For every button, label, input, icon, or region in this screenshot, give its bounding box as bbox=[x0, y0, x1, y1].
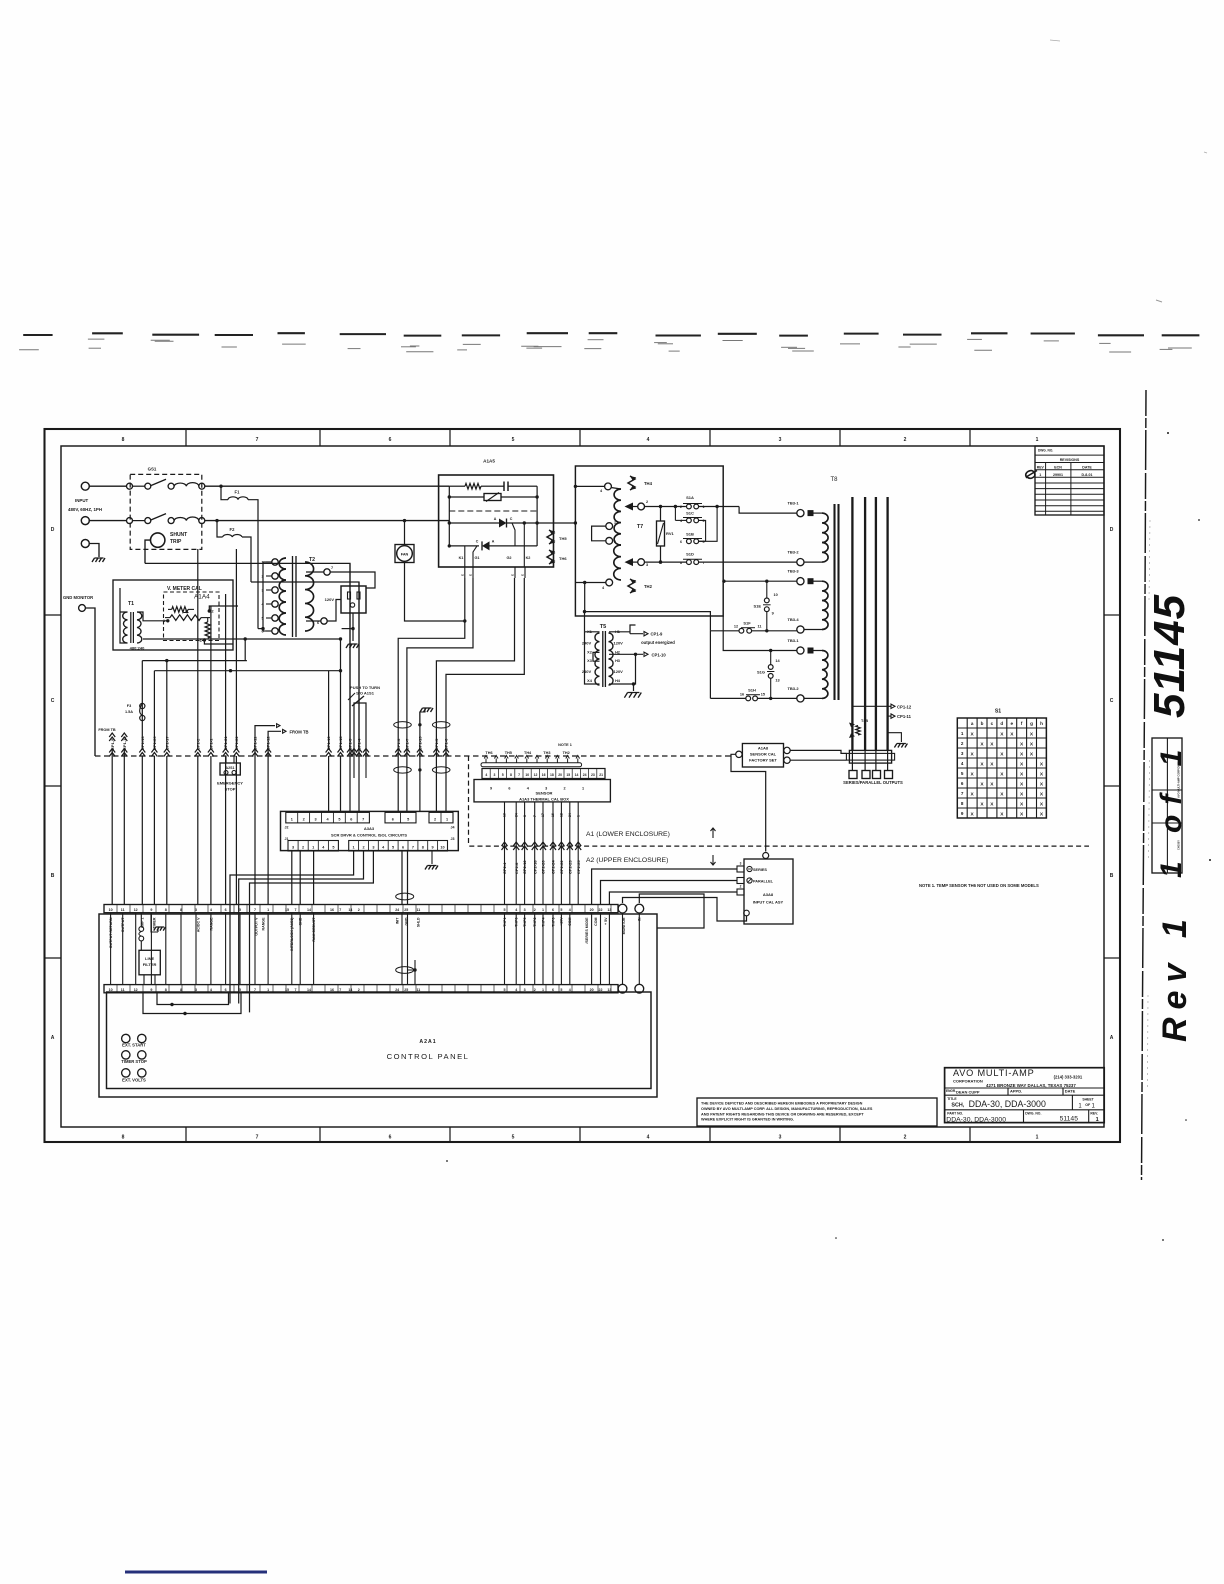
svg-text:CONTROL PANEL: CONTROL PANEL bbox=[387, 1052, 470, 1061]
wire T7 row1 bbox=[645, 505, 686, 508]
svg-text:X: X bbox=[970, 751, 974, 757]
svg-text:CP1-12: CP1-12 bbox=[266, 736, 271, 750]
wire T5 H1 out bbox=[609, 625, 636, 634]
svg-text:16: 16 bbox=[542, 773, 546, 777]
svg-text:X: X bbox=[990, 761, 994, 767]
svg-text:CP1-10: CP1-10 bbox=[122, 736, 127, 750]
svg-text:A1A8: A1A8 bbox=[758, 746, 769, 751]
svg-text:X: X bbox=[980, 741, 984, 747]
svg-text:24: 24 bbox=[395, 908, 399, 912]
svg-text:14: 14 bbox=[307, 908, 311, 912]
svg-text:OF: OF bbox=[1085, 1103, 1091, 1107]
svg-text:CP1-6: CP1-6 bbox=[396, 738, 401, 750]
svg-text:AC/DC V: AC/DC V bbox=[196, 917, 200, 932]
wire shunt run bbox=[145, 563, 350, 756]
svg-text:EMERGENCY: EMERGENCY bbox=[217, 781, 243, 786]
svg-text:7: 7 bbox=[339, 908, 341, 912]
svg-text:5: 5 bbox=[407, 818, 409, 822]
shunt trip coil bbox=[151, 533, 165, 547]
svg-text:5: 5 bbox=[338, 818, 340, 822]
svg-text:K1: K1 bbox=[459, 556, 464, 560]
svg-text:CP1-19: CP1-19 bbox=[418, 736, 423, 750]
T7 feedback link bbox=[592, 526, 606, 541]
svg-text:X: X bbox=[1040, 761, 1044, 767]
SCR assembly A1A5 box bbox=[439, 475, 554, 567]
wire T5 X1 bbox=[585, 632, 600, 684]
svg-text:4: 4 bbox=[210, 908, 212, 912]
svg-text:E: E bbox=[469, 574, 473, 576]
svg-text:g: g bbox=[1030, 721, 1033, 726]
svg-text:TH3: TH3 bbox=[543, 751, 550, 755]
svg-text:S1H: S1H bbox=[748, 688, 756, 693]
lower strip terminal b bbox=[635, 984, 644, 993]
wire CP1-11 bbox=[252, 736, 258, 905]
svg-text:20: 20 bbox=[558, 773, 562, 777]
bulkhead oval A3A3 out bbox=[396, 893, 414, 900]
svg-text:2: 2 bbox=[646, 500, 648, 504]
svg-text:SENSOR CAL: SENSOR CAL bbox=[750, 752, 777, 757]
wire T7 down to T5 bbox=[583, 583, 586, 632]
svg-text:7: 7 bbox=[412, 846, 414, 850]
lower strip terminal a bbox=[618, 984, 627, 993]
svg-text:D: D bbox=[1110, 527, 1114, 533]
svg-text:1: 1 bbox=[267, 908, 269, 912]
svg-text:F1: F1 bbox=[235, 490, 241, 495]
fan motor bbox=[395, 545, 414, 563]
svg-text:S/O A1S1: S/O A1S1 bbox=[356, 691, 375, 696]
svg-text:THE DEVICE DEPICTED AND DESCRI: THE DEVICE DEPICTED AND DESCRIBED HEREON… bbox=[701, 1102, 863, 1106]
wire CP1-1 bbox=[208, 606, 214, 905]
svg-text:F3: F3 bbox=[127, 704, 131, 708]
svg-text:T5: T5 bbox=[600, 624, 607, 630]
wire CP1-6 bbox=[443, 738, 449, 757]
svg-text:TRIP: TRIP bbox=[170, 539, 182, 545]
svg-text:CORPORATION: CORPORATION bbox=[953, 1078, 983, 1083]
A1A5 internal dashed line bbox=[449, 510, 537, 512]
svg-text:ECN: ECN bbox=[1054, 466, 1062, 470]
line filter bbox=[139, 950, 160, 975]
svg-text:GND MONITOR: GND MONITOR bbox=[63, 595, 93, 600]
svg-text:6: 6 bbox=[961, 781, 964, 786]
svg-text:16: 16 bbox=[740, 693, 744, 697]
svg-text:5: 5 bbox=[332, 846, 334, 850]
wire K1 to CP bbox=[398, 578, 466, 811]
node gate bus b bbox=[418, 768, 421, 771]
svg-text:1: 1 bbox=[576, 815, 580, 817]
svg-text:d: d bbox=[1000, 721, 1003, 726]
svg-text:SHEET: SHEET bbox=[1082, 1098, 1094, 1102]
sensor header bbox=[481, 751, 603, 777]
svg-text:5: 5 bbox=[703, 540, 705, 544]
svg-text:2: 2 bbox=[302, 846, 304, 850]
svg-text:SENSOR: SENSOR bbox=[536, 791, 553, 796]
thermistor TH4 bbox=[628, 476, 635, 490]
svg-text:X: X bbox=[1010, 731, 1014, 737]
svg-text:X: X bbox=[1040, 791, 1044, 797]
wire A3A3 J1-3 bbox=[313, 851, 315, 905]
A3A8 terminal sq3 bbox=[737, 885, 744, 896]
svg-text:480:240: 480:240 bbox=[130, 646, 145, 651]
wire A3A3 J1-2 bbox=[299, 851, 301, 905]
svg-text:A1A3 THERMAL CAL BOX: A1A3 THERMAL CAL BOX bbox=[519, 796, 569, 801]
T8 core bbox=[835, 504, 839, 700]
wire CP2-6 bbox=[513, 802, 519, 905]
svg-text:PUSH TO TURN: PUSH TO TURN bbox=[350, 685, 380, 690]
svg-text:MONITOR: MONITOR bbox=[622, 917, 626, 934]
svg-text:X2: X2 bbox=[587, 650, 592, 654]
svg-text:5: 5 bbox=[961, 771, 964, 776]
svg-text:8: 8 bbox=[165, 908, 167, 912]
svg-text:A1A4: A1A4 bbox=[194, 594, 210, 601]
wire CP2-25 bbox=[575, 802, 581, 905]
wire CP1-13 bbox=[139, 661, 145, 905]
wire S1A to TB3-1 bbox=[739, 507, 797, 514]
svg-text:X: X bbox=[980, 801, 984, 807]
svg-text:1: 1 bbox=[582, 787, 584, 791]
svg-text:1: 1 bbox=[446, 818, 448, 822]
svg-text:+ 5V: + 5V bbox=[604, 917, 608, 925]
handwritten Rev 1 bbox=[1156, 911, 1194, 1042]
panel jacks EXT. START bbox=[122, 1034, 147, 1047]
wire K2 drop bbox=[523, 523, 525, 567]
wire CP1-9 arrow bbox=[630, 632, 663, 637]
ground T8 secondary bbox=[888, 733, 908, 748]
label A2 UPPER ENCLOSURE bbox=[586, 855, 716, 865]
T8 secondary bar 1 bbox=[851, 497, 853, 750]
wire gnd monitor bbox=[85, 608, 95, 756]
wire gate common bbox=[419, 712, 421, 811]
svg-text:TH5: TH5 bbox=[559, 536, 567, 541]
svg-text:CP2-16: CP2-16 bbox=[532, 860, 537, 874]
switch S1D bbox=[680, 552, 705, 566]
wire A3A3 J3 loop3 bbox=[250, 851, 374, 1012]
svg-text:9: 9 bbox=[432, 846, 434, 850]
svg-text:NOTE 1: NOTE 1 bbox=[558, 743, 572, 747]
SCR driver box A3A3 bbox=[281, 811, 459, 851]
svg-text:3: 3 bbox=[779, 1135, 782, 1141]
svg-text:29901: 29901 bbox=[1053, 473, 1063, 477]
svg-text:T2: T2 bbox=[309, 557, 315, 563]
svg-text:X: X bbox=[1040, 781, 1044, 787]
svg-text:INPUT CAL ASY: INPUT CAL ASY bbox=[753, 900, 784, 905]
svg-text:CP2-25: CP2-25 bbox=[576, 860, 581, 874]
A1A8 right terminal 1 bbox=[784, 747, 790, 753]
svg-text:X: X bbox=[970, 811, 974, 817]
wire meter bus 2 bbox=[142, 659, 247, 662]
svg-text:6: 6 bbox=[508, 787, 510, 791]
fuse F1 bbox=[221, 486, 258, 628]
wire CP1-22 bbox=[233, 549, 239, 905]
panel jacks TIMER STOP bbox=[121, 1051, 147, 1064]
svg-text:16: 16 bbox=[330, 908, 334, 912]
svg-text:A2S1: A2S1 bbox=[226, 766, 235, 770]
svg-text:5: 5 bbox=[392, 846, 394, 850]
meter cal assembly box bbox=[113, 580, 233, 650]
svg-text:2: 2 bbox=[680, 505, 682, 509]
svg-text:F2: F2 bbox=[230, 527, 236, 532]
svg-text:X: X bbox=[970, 771, 974, 777]
revision checkmark scribble bbox=[1026, 471, 1037, 479]
svg-text:output energized: output energized bbox=[641, 640, 675, 645]
svg-text:FACTORY SET: FACTORY SET bbox=[749, 758, 777, 763]
wire A1S1 drops bbox=[354, 756, 366, 778]
svg-text:SHLD: SHLD bbox=[417, 917, 421, 927]
wire fan down bbox=[405, 563, 465, 621]
svg-text:C: C bbox=[51, 698, 55, 704]
svg-text:4: 4 bbox=[322, 846, 325, 850]
T8 secondary bar 4 bbox=[886, 497, 888, 750]
svg-text:1: 1 bbox=[1092, 1103, 1096, 1109]
svg-text:8: 8 bbox=[122, 1135, 125, 1141]
output lug 4 bbox=[885, 771, 893, 779]
wire lug4 bbox=[887, 750, 889, 770]
svg-text:51145: 51145 bbox=[1060, 1115, 1079, 1122]
svg-text:b: b bbox=[981, 721, 984, 726]
wire A3A3 J3 loop2 bbox=[239, 851, 364, 1004]
svg-text:T4B: T4B bbox=[861, 719, 868, 723]
svg-text:A: A bbox=[1110, 1035, 1114, 1041]
svg-text:C: C bbox=[1110, 698, 1114, 704]
svg-text:7: 7 bbox=[533, 815, 537, 817]
svg-text:X: X bbox=[1030, 731, 1034, 737]
svg-text:3: 3 bbox=[961, 751, 964, 756]
svg-text:6: 6 bbox=[225, 908, 227, 912]
label SHUNT TRIP bbox=[170, 532, 187, 545]
series-parallel connector bbox=[846, 750, 894, 763]
svg-text:4: 4 bbox=[602, 586, 605, 590]
node A1A4 pin2 bbox=[208, 609, 214, 613]
switch table S1 bbox=[957, 709, 1046, 819]
wire A3A8 s2 bbox=[601, 881, 738, 905]
svg-text:GS1: GS1 bbox=[148, 467, 157, 472]
wire G2 to CP bbox=[436, 578, 514, 811]
thermistor TH2 bbox=[628, 579, 635, 593]
wire monitor loop bbox=[639, 894, 704, 928]
node F2 tap bbox=[215, 519, 218, 522]
svg-text:16: 16 bbox=[551, 813, 555, 817]
wire T1 primary top bbox=[120, 588, 128, 643]
wire L2 to GS1 bbox=[89, 520, 127, 522]
wire line2 to A1A5 bbox=[205, 520, 449, 522]
svg-text:15: 15 bbox=[566, 773, 570, 777]
svg-text:8: 8 bbox=[180, 908, 182, 912]
svg-text:J2: J2 bbox=[285, 826, 289, 830]
title block bbox=[945, 1068, 1105, 1124]
svg-text:3: 3 bbox=[646, 563, 648, 567]
svg-text:4: 4 bbox=[647, 1135, 650, 1141]
gnd monitor terminal bbox=[79, 605, 86, 612]
wire CP1-5 bbox=[433, 738, 439, 757]
svg-text:15: 15 bbox=[285, 908, 289, 912]
svg-text:9: 9 bbox=[490, 787, 492, 791]
svg-text:X: X bbox=[990, 781, 994, 787]
svg-text:10: 10 bbox=[109, 908, 113, 912]
wire S1E ladder down bbox=[709, 631, 711, 699]
varistor RV1 bbox=[657, 505, 675, 564]
T8 winding 3 bbox=[804, 651, 828, 699]
input terminal L2 bbox=[81, 517, 89, 525]
wire T2 gnd bus bbox=[342, 628, 353, 630]
wire CP2-24 bbox=[550, 802, 556, 905]
svg-text:TH6: TH6 bbox=[485, 751, 492, 755]
upper enclosure outline bbox=[99, 914, 657, 1097]
ground input bbox=[92, 558, 105, 562]
output lug 1 bbox=[849, 771, 857, 779]
A1A8 left terminal bbox=[736, 751, 742, 757]
T8 secondary bar 3 bbox=[875, 497, 877, 750]
wire L1 to GS1 bbox=[89, 485, 127, 487]
svg-text:TB3-1: TB3-1 bbox=[787, 638, 799, 643]
svg-text:PARALLEL: PARALLEL bbox=[753, 880, 774, 884]
svg-text:COM: COM bbox=[594, 918, 598, 926]
svg-text:7: 7 bbox=[961, 791, 964, 796]
svg-text:4: 4 bbox=[326, 818, 329, 822]
svg-text:8: 8 bbox=[961, 801, 964, 806]
svg-text:IN: IN bbox=[638, 917, 642, 921]
transformer T1 bbox=[123, 601, 145, 651]
svg-text:CP1-10: CP1-10 bbox=[652, 652, 667, 657]
wire CP2-23 bbox=[567, 802, 573, 905]
svg-text:DWG. NO.: DWG. NO. bbox=[1025, 1112, 1041, 1116]
svg-text:10: 10 bbox=[774, 593, 778, 597]
svg-text:9: 9 bbox=[772, 612, 774, 616]
svg-text:3: 3 bbox=[372, 846, 374, 850]
svg-text:2: 2 bbox=[564, 787, 566, 791]
wire CP1-19 bbox=[326, 671, 332, 812]
T2 secondary pin7 bbox=[306, 566, 333, 575]
fuse upper F bbox=[139, 913, 144, 950]
svg-text:12: 12 bbox=[534, 773, 538, 777]
svg-text:51145: 51145 bbox=[1145, 594, 1194, 718]
svg-text:A: A bbox=[492, 540, 495, 544]
terminal TB3-1 bbox=[787, 638, 813, 654]
svg-text:X: X bbox=[1000, 751, 1004, 757]
label FROM TB left bbox=[98, 728, 127, 741]
svg-text:7: 7 bbox=[362, 818, 364, 822]
svg-text:TH2: TH2 bbox=[644, 584, 653, 589]
svg-text:7: 7 bbox=[254, 908, 256, 912]
svg-text:7: 7 bbox=[295, 908, 297, 912]
wire F2 run bbox=[251, 582, 359, 756]
svg-text:5: 5 bbox=[239, 908, 241, 912]
wire T2 taps bbox=[261, 562, 272, 631]
svg-text:8: 8 bbox=[422, 846, 424, 850]
svg-text:LINE: LINE bbox=[145, 956, 154, 961]
svg-text:9: 9 bbox=[150, 908, 152, 912]
svg-text:4: 4 bbox=[527, 787, 530, 791]
svg-text:DDA-30, DDA-3000: DDA-30, DDA-3000 bbox=[969, 1099, 1046, 1109]
input terminal L1 bbox=[81, 482, 89, 490]
wire CP2-20 bbox=[540, 802, 546, 905]
T7 terminal 4 top bbox=[574, 483, 612, 493]
svg-text:A2A1: A2A1 bbox=[419, 1039, 436, 1045]
svg-text:2: 2 bbox=[358, 908, 360, 912]
wire lower loop2 bbox=[143, 993, 241, 1015]
svg-text:X: X bbox=[1000, 731, 1004, 737]
fuse F2 bbox=[217, 521, 251, 582]
svg-text:V. METER CAL: V. METER CAL bbox=[167, 586, 202, 592]
svg-text:INPUT: INPUT bbox=[75, 498, 88, 503]
switch S1B bbox=[680, 507, 717, 545]
T7 terminal 5 bbox=[606, 537, 616, 544]
wire CP1-10 bbox=[121, 736, 127, 905]
svg-text:B: B bbox=[1110, 873, 1114, 879]
svg-text:S1: S1 bbox=[995, 709, 1001, 715]
svg-text:7: 7 bbox=[518, 773, 520, 777]
svg-text:TH2: TH2 bbox=[563, 751, 570, 755]
svg-text:CP1-9: CP1-9 bbox=[651, 632, 664, 637]
wire CP2-16 bbox=[532, 802, 538, 905]
wire CP1-4 bbox=[356, 582, 362, 811]
svg-text:S1B: S1B bbox=[686, 532, 694, 537]
A3A8 terminal sq1 bbox=[737, 862, 744, 873]
T8 secondary bar 2 bbox=[864, 497, 866, 750]
T8 winding 2 bbox=[804, 581, 828, 629]
svg-text:G1: G1 bbox=[474, 556, 479, 560]
svg-text:SHUNT: SHUNT bbox=[170, 532, 187, 538]
wire T7 row2 bbox=[645, 560, 687, 563]
wire A3A8 com bbox=[623, 898, 747, 922]
sheet count box bbox=[1152, 738, 1182, 873]
svg-text:14: 14 bbox=[775, 659, 780, 663]
svg-text:5: 5 bbox=[614, 540, 616, 544]
wire SCR row1 to T7 bbox=[537, 521, 577, 524]
svg-text:23: 23 bbox=[591, 773, 595, 777]
svg-text:/SERIES MODE: /SERIES MODE bbox=[585, 917, 589, 944]
A3A8 top terminal bbox=[763, 853, 769, 859]
svg-text:REV.: REV. bbox=[1090, 1112, 1098, 1116]
svg-text:E: E bbox=[521, 574, 525, 576]
svg-text:S1A: S1A bbox=[686, 495, 694, 500]
wire CP1-12 tap bbox=[852, 704, 911, 709]
wire A3A8 s1 bbox=[592, 869, 737, 905]
svg-text:X: X bbox=[1020, 791, 1024, 797]
svg-text:REVISIONS: REVISIONS bbox=[1060, 458, 1080, 462]
svg-text:X: X bbox=[980, 761, 984, 767]
svg-text:3: 3 bbox=[524, 908, 526, 912]
label INPUT 480V 60HZ 1PH bbox=[68, 498, 102, 512]
svg-text:X: X bbox=[1030, 751, 1034, 757]
svg-text:SCR DRVR & CONTROL ISOL CIRCUI: SCR DRVR & CONTROL ISOL CIRCUITS bbox=[331, 833, 407, 838]
svg-text:X: X bbox=[980, 781, 984, 787]
svg-text:6: 6 bbox=[402, 846, 404, 850]
svg-text:CP2-23: CP2-23 bbox=[567, 860, 572, 874]
svg-text:TH4: TH4 bbox=[524, 751, 532, 755]
wire K2 to CP bbox=[446, 578, 524, 811]
svg-text:1: 1 bbox=[1078, 1103, 1082, 1109]
wire pin7 to receptacle bbox=[330, 572, 375, 588]
wire line filter out bbox=[144, 975, 155, 985]
svg-text:J4: J4 bbox=[451, 826, 455, 830]
svg-text:EXT. START: EXT. START bbox=[122, 1043, 146, 1048]
svg-text:(214) 333-3201: (214) 333-3201 bbox=[1054, 1075, 1083, 1080]
circuit breaker GS1 dashed box bbox=[130, 474, 202, 549]
svg-text:21: 21 bbox=[599, 773, 603, 777]
wire lug2 bbox=[864, 750, 866, 770]
svg-text:1: 1 bbox=[542, 908, 544, 912]
svg-text:1 of 1: 1 of 1 bbox=[1155, 740, 1188, 878]
handwritten drawing number 51145 bbox=[1145, 594, 1194, 718]
svg-text:3: 3 bbox=[292, 846, 294, 850]
svg-text:FROM TB: FROM TB bbox=[289, 730, 308, 735]
wire A3A8 s3 bbox=[609, 892, 737, 905]
wire CP1-2 bbox=[195, 549, 201, 905]
thermistor TH5 bbox=[547, 530, 567, 544]
ground T2 bbox=[346, 644, 359, 648]
scan noise band bbox=[19, 333, 1199, 352]
svg-text:CP2-24: CP2-24 bbox=[551, 860, 556, 874]
svg-text:9: 9 bbox=[961, 811, 964, 816]
